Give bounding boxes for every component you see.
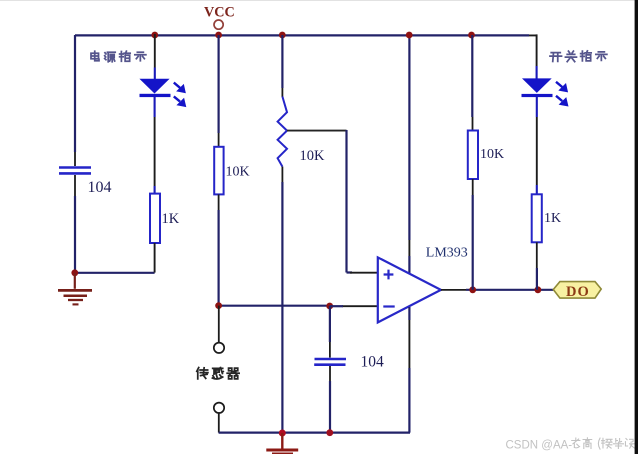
- wire: sensor node to inverting input: [219, 305, 330, 307]
- node: junction dot D1 branch on rail: [151, 32, 158, 39]
- svg-text:10K: 10K: [300, 148, 326, 164]
- power port VCC circle: [214, 20, 223, 29]
- resistor R1 10K (middle): [214, 147, 223, 195]
- pin: D2 anode pin (rail corner): [529, 34, 537, 66]
- node: junction dot R3 on rail: [468, 32, 475, 39]
- pin: op-amp inverting input pin: [342, 305, 378, 307]
- svg-text:10K: 10K: [226, 165, 250, 180]
- terminal circle P1 lower: [214, 403, 224, 413]
- pin: C1 top pin: [74, 152, 76, 166]
- label 开关指示 (switch indicator): [550, 51, 607, 62]
- pin: potentiometer bottom pin: [281, 167, 283, 182]
- pin: D1 cathode pin to R2: [154, 117, 156, 186]
- resistor R2 1K (left): [150, 194, 160, 243]
- node: junction dot op-amp power on rail: [406, 32, 413, 39]
- wire: R3 bottom to output: [472, 195, 474, 290]
- svg-text:VCC: VCC: [204, 4, 235, 20]
- svg-text:DO: DO: [566, 284, 590, 300]
- svg-text:10K: 10K: [480, 147, 504, 162]
- wire: op-amp power from rail: [408, 35, 410, 240]
- resistor R4 1K (right): [532, 194, 542, 242]
- pin: R1 bottom pin: [218, 194, 220, 210]
- pin: D1 anode pin: [154, 34, 156, 68]
- wire: D1 anode wire: [154, 68, 156, 80]
- wire: output to DO port: [466, 289, 553, 291]
- pin: C1 bottom pin: [74, 175, 76, 196]
- terminal circle P1 upper: [214, 343, 224, 353]
- wire: top VCC rail: [75, 34, 529, 36]
- wire: left rail down to C1: [74, 35, 76, 152]
- wire: D2 anode wire: [536, 66, 538, 79]
- ground GND1: [58, 273, 92, 304]
- wire: R1 bottom to sensor node: [218, 210, 220, 305]
- pin: R4 bottom pin: [536, 242, 538, 268]
- wire: potentiometer bottom to ground rail: [281, 182, 283, 433]
- svg-text:CSDN @AA-: CSDN @AA-: [506, 439, 573, 451]
- op-amp plus sign: [384, 270, 394, 280]
- svg-text:1K: 1K: [162, 211, 180, 227]
- pin: potentiometer top pin: [281, 88, 283, 97]
- pin: R2 bottom pin: [154, 243, 156, 273]
- wire: ground node to R2 bottom: [75, 272, 155, 274]
- wire: wiper down to non-inverting input: [347, 130, 353, 273]
- pin: op-amp power pin: [408, 240, 410, 256]
- wire: stub into R4 top: [536, 185, 538, 194]
- ground GND2: [266, 433, 298, 454]
- node: junction dot output R3: [469, 286, 476, 293]
- svg-text:1K: 1K: [544, 211, 561, 226]
- watermark CJK part: [572, 438, 635, 449]
- pin: op-amp ground pin: [408, 320, 410, 368]
- port DO flag: [553, 282, 601, 299]
- pin: R3 bottom pin: [472, 179, 474, 195]
- svg-text:104: 104: [361, 354, 385, 371]
- LED D1 (power indicator): [139, 79, 170, 97]
- wire: op-amp ground to bottom rail: [408, 368, 410, 433]
- wire: D2 cathode wire: [536, 97, 538, 117]
- wire: power pin stub to symbol edge: [408, 256, 410, 274]
- wire: VCC rail to R1 top: [218, 35, 220, 133]
- pin: R1 top pin: [218, 133, 220, 147]
- wire: rail to R3 top: [471, 35, 473, 117]
- wire: C2 node to inverting pin: [330, 305, 343, 307]
- LED D2 arrows: [556, 82, 567, 105]
- capacitor C2 plates (104): [314, 359, 346, 365]
- node: junction dot C2 on rail: [326, 429, 333, 436]
- capacitor C1 plates (104): [59, 168, 91, 174]
- pin: op-amp non-inverting input pin: [350, 272, 378, 274]
- node: junction dot pot branch on rail: [279, 32, 286, 39]
- node: junction dot left ground: [71, 269, 78, 276]
- label 传感器 (sensor): [197, 368, 239, 379]
- wire: D1 cathode wire: [154, 97, 156, 117]
- pin: sensor terminal pin upper: [218, 306, 220, 343]
- right black border bar: [635, 0, 638, 454]
- label 电源指示 (power indicator): [91, 51, 146, 62]
- node: junction dot sensor divider: [215, 302, 222, 309]
- pin: R3 top pin: [472, 117, 474, 131]
- pin: C2 bottom pin: [329, 366, 331, 381]
- wire: C1 to ground node: [74, 196, 76, 273]
- node: junction dot C2 top: [326, 303, 333, 310]
- svg-text:LM393: LM393: [426, 246, 468, 261]
- wire: C2 node down: [329, 306, 331, 342]
- LED D1 arrows: [174, 83, 185, 106]
- potentiometer RP1 10K zigzag: [278, 97, 287, 167]
- pin: D2 cathode pin to R4: [536, 117, 538, 185]
- resistor R3 10K (right): [468, 131, 478, 180]
- wire: bottom ground rail: [219, 432, 410, 434]
- wire: stub into R2 top: [154, 186, 156, 194]
- wire: op-amp ground stub below symbol: [408, 307, 410, 320]
- op-amp minus sign: [383, 305, 394, 307]
- wire: C2 bottom to ground rail: [329, 381, 331, 433]
- wire: R4 bottom to output node: [536, 268, 538, 290]
- pin: op-amp output pin: [441, 289, 466, 291]
- pin: potentiometer wiper pin: [287, 130, 347, 132]
- op-amp U1 LM393 triangle: [378, 257, 441, 322]
- wire: rail to potentiometer top: [281, 35, 283, 88]
- pin: C2 top pin: [329, 342, 331, 358]
- node: junction dot output R4: [535, 286, 542, 293]
- LED D2 (switch indicator): [522, 78, 553, 97]
- pin: sensor terminal pin lower: [218, 413, 220, 432]
- node: junction dot bottom rail ground: [279, 430, 286, 437]
- svg-text:104: 104: [88, 179, 112, 196]
- top edge faint line: [0, 0, 638, 2]
- node: VCC junction dot: [215, 32, 222, 39]
